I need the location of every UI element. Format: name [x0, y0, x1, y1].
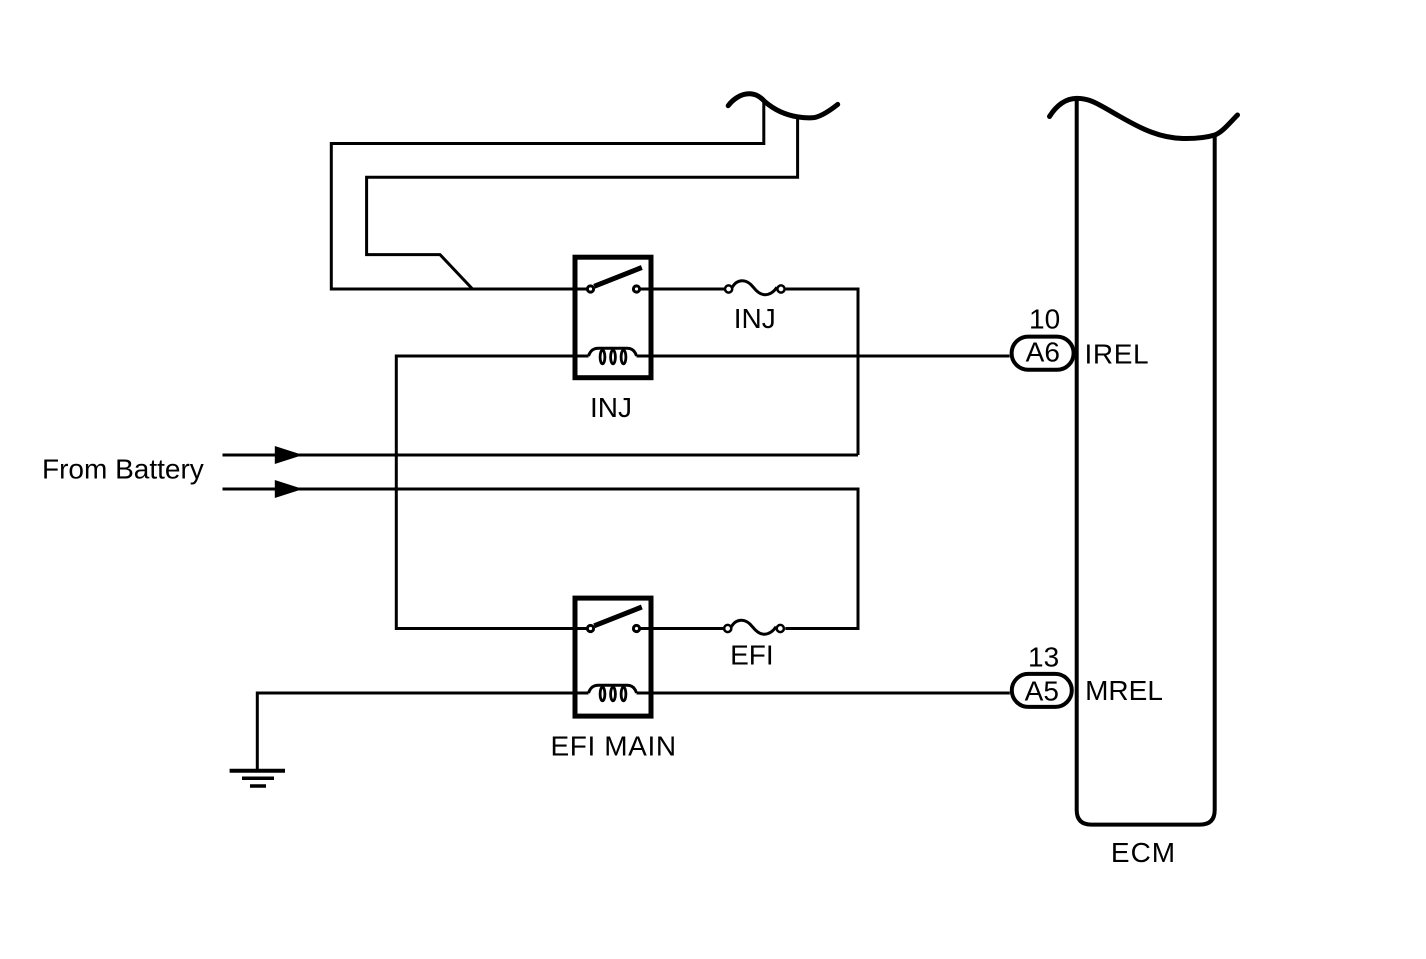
relay INJ: [575, 257, 651, 378]
wire EFI relay coil line to ground drop: [257, 693, 588, 771]
svg-text:13: 13: [1028, 642, 1059, 673]
svg-text:EFI: EFI: [730, 640, 774, 671]
svg-text:MREL: MREL: [1085, 675, 1163, 706]
wire EFI relay coil to ECM pin A5: [637, 692, 1010, 695]
wire INJ relay switch output to INJ fuse: [640, 288, 724, 291]
wire EFI relay switch output to EFI fuse: [640, 627, 723, 630]
arrow battery line 2: [275, 480, 303, 498]
svg-text:From Battery: From Battery: [42, 454, 204, 485]
svg-text:INJ: INJ: [734, 303, 776, 334]
ground symbol: [230, 771, 285, 786]
svg-text:EFI MAIN: EFI MAIN: [551, 730, 677, 761]
svg-text:A6: A6: [1026, 337, 1060, 368]
connector pin A6 oval: [1012, 337, 1074, 370]
svg-text:IREL: IREL: [1085, 339, 1150, 370]
svg-text:10: 10: [1029, 304, 1060, 335]
wire battery line 1: [223, 454, 859, 457]
fuse INJ: [725, 281, 785, 295]
ECM connector block outline: [1077, 99, 1215, 825]
arrow battery line 1: [275, 446, 303, 464]
wire INJ fuse to right vertical down to battery line 1: [786, 289, 858, 455]
wire left vertical from INJ relay coil down to EFI relay switch input: [396, 356, 588, 629]
ECM harness break squiggle: [1050, 98, 1238, 138]
svg-text:INJ: INJ: [590, 392, 632, 423]
harness break squiggle (top): [728, 94, 838, 118]
relay EFI MAIN: [575, 598, 651, 716]
svg-text:A5: A5: [1025, 676, 1059, 707]
wire battery line 2 to right vertical down to EFI fuse: [223, 489, 859, 629]
fuse EFI: [724, 620, 784, 634]
svg-text:ECM: ECM: [1111, 837, 1176, 868]
connector pin A5 oval: [1012, 674, 1072, 707]
wire upper run from INJ relay switch input to harness break: [331, 101, 764, 289]
wire INJ relay coil to ECM pin A6: [637, 355, 1010, 358]
wire second upper run with diagonal joint to switch input: [367, 116, 798, 289]
